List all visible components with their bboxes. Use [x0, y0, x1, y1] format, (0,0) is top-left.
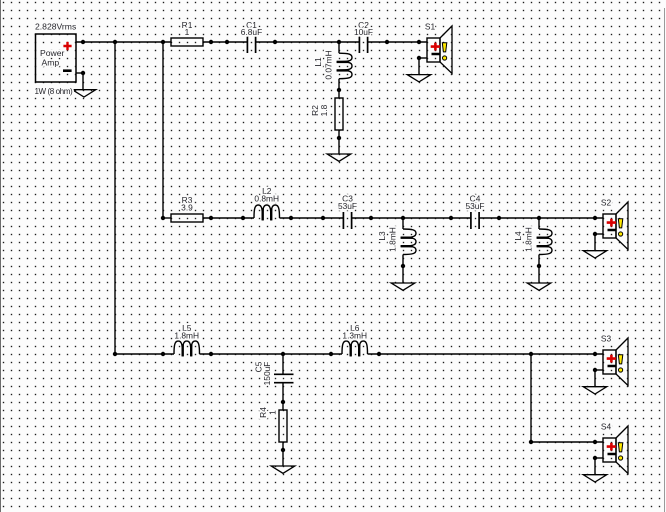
svg-text:1.8mH: 1.8mH [174, 331, 199, 341]
node row2-9 [497, 216, 501, 220]
wire [163, 217, 171, 219]
svg-text:150uF: 150uF [262, 362, 272, 386]
ground (R2) [327, 154, 351, 161]
node row1-1 [81, 40, 85, 44]
ground (amp) [72, 90, 96, 97]
wire [338, 42, 340, 53]
wire (S2 negative) [595, 233, 603, 235]
inductor L6 [342, 323, 368, 356]
node S4-branch [529, 440, 533, 444]
wire [368, 41, 427, 43]
wire [538, 255, 540, 284]
wire [282, 383, 284, 410]
resistor R1 [171, 20, 203, 46]
resistor R4 [258, 407, 287, 442]
speaker S4 [601, 421, 628, 473]
svg-text:Power: Power [40, 48, 64, 58]
node row3-6 [377, 352, 381, 356]
node row2-3 [241, 216, 245, 220]
wire [418, 58, 420, 75]
inductor L3 [377, 227, 416, 254]
svg-text:1.8mH: 1.8mH [524, 227, 534, 252]
svg-text:L4: L4 [513, 231, 523, 241]
node row2-10 [537, 216, 541, 220]
node row2-11 [593, 216, 597, 220]
node row3-7 [529, 352, 533, 356]
speaker S2 [601, 197, 628, 249]
node C5/R4 [281, 400, 285, 404]
svg-text:R4: R4 [258, 407, 268, 418]
ground (S2) [583, 251, 607, 258]
capacitor C4 [465, 194, 484, 229]
node row1-6 [273, 40, 277, 44]
node row2-7 [401, 216, 405, 220]
node row2-4 [289, 216, 293, 220]
resistor R2 [310, 98, 343, 130]
node amp-neg [81, 71, 85, 75]
inductor L1 [313, 50, 352, 79]
node R4/gnd [281, 448, 285, 452]
wire [76, 41, 171, 43]
node R2/gnd [337, 136, 341, 140]
inductor L4 [513, 227, 552, 254]
node row1-2 [113, 40, 117, 44]
ground (L4) [527, 283, 551, 290]
capacitor C2 [354, 20, 373, 53]
svg-text:S3: S3 [601, 333, 612, 343]
svg-text:L1: L1 [313, 57, 323, 67]
wire [402, 218, 404, 229]
svg-text:1.8mH: 1.8mH [388, 227, 398, 252]
svg-text:0.07mH: 0.07mH [324, 50, 334, 79]
wire [594, 234, 596, 251]
node S1-neg [417, 56, 421, 60]
svg-text:1.3mH: 1.3mH [342, 331, 367, 341]
wire [352, 217, 471, 219]
wire [282, 354, 284, 374]
wire (feeder to S4) [530, 354, 532, 442]
ground (L3) [391, 283, 415, 290]
node row2-5 [321, 216, 325, 220]
wire [594, 370, 596, 387]
node row3-5 [329, 352, 333, 356]
node row3-8 [593, 352, 597, 356]
wire (S4 negative) [595, 457, 603, 459]
wire [531, 441, 603, 443]
node row2-6 [369, 216, 373, 220]
svg-text:S4: S4 [601, 421, 612, 431]
ground (R4) [271, 466, 295, 473]
node row3-3 [209, 352, 213, 356]
resistor R3 [171, 195, 203, 222]
inductor L5 [174, 323, 200, 356]
node row3-1 [113, 352, 117, 356]
wire (feeder to band-pass row) [162, 42, 164, 218]
node row1-3 [161, 40, 165, 44]
node row1-9 [417, 40, 421, 44]
capacitor C1 [241, 20, 262, 53]
wire (S1 negative) [419, 57, 427, 59]
node row3-4 [281, 352, 285, 356]
wire (amp negative) [76, 72, 83, 74]
node S4-neg [593, 456, 597, 460]
svg-text:1: 1 [268, 410, 278, 415]
node S2-neg [593, 232, 597, 236]
wire [594, 458, 596, 475]
inductor L2 [254, 186, 280, 220]
node L1/R2 [337, 88, 341, 92]
svg-text:S1: S1 [425, 21, 436, 31]
node row2-1 [161, 216, 165, 220]
svg-text:1.8: 1.8 [319, 104, 329, 116]
node row2-8 [449, 216, 453, 220]
wire (S3 negative) [595, 369, 603, 371]
wire [282, 442, 284, 466]
wire [203, 217, 254, 219]
svg-text:1: 1 [185, 27, 190, 37]
node S3-neg [593, 368, 597, 372]
svg-text:Amp: Amp [42, 58, 60, 68]
ground (S4) [583, 475, 607, 482]
wire [203, 41, 247, 43]
node row1-8 [385, 40, 389, 44]
wire [338, 130, 340, 154]
wire [479, 217, 603, 219]
wire [338, 79, 340, 98]
svg-text:1W (8 ohm): 1W (8 ohm) [35, 87, 74, 96]
wire [115, 353, 174, 355]
node row1-4 [209, 40, 213, 44]
wire [538, 218, 540, 229]
svg-text:2.828Vrms: 2.828Vrms [35, 22, 76, 32]
capacitor C5 [254, 361, 294, 385]
svg-text:10uF: 10uF [354, 27, 373, 37]
ground (S1) [407, 75, 431, 82]
svg-text:0.8mH: 0.8mH [254, 194, 279, 204]
node row1-7 [337, 40, 341, 44]
capacitor C3 [338, 194, 357, 229]
node row1-5 [225, 40, 229, 44]
wire [82, 73, 84, 90]
svg-text:53uF: 53uF [465, 201, 484, 211]
wire [280, 217, 344, 219]
node S4-pos [593, 440, 597, 444]
node row2-2 [209, 216, 213, 220]
wire [368, 353, 604, 355]
svg-text:6.8uF: 6.8uF [241, 27, 262, 37]
wire [256, 41, 360, 43]
node row3-2 [161, 352, 165, 356]
svg-text:3.9: 3.9 [181, 202, 193, 212]
node L4/gnd [537, 264, 541, 268]
wire [200, 353, 343, 355]
voltage source VS1 Power Amp [35, 22, 76, 83]
wire [402, 255, 404, 284]
svg-text:53uF: 53uF [338, 201, 357, 211]
svg-text:S2: S2 [601, 197, 612, 207]
speaker S1 [425, 21, 452, 73]
speaker S3 [601, 333, 628, 385]
ground (S3) [583, 387, 607, 394]
svg-text:L3: L3 [377, 231, 387, 241]
wire (feeder to low-pass row) [114, 42, 116, 354]
node L3/gnd [401, 264, 405, 268]
